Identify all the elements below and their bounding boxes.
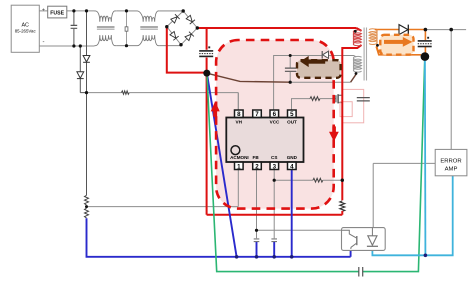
svg-text:85-265Vac: 85-265Vac	[15, 29, 37, 34]
svg-text:8: 8	[237, 111, 241, 118]
svg-text:ERROR: ERROR	[440, 159, 461, 165]
svg-text:FUSE: FUSE	[50, 10, 64, 16]
svg-text:AMP: AMP	[445, 167, 458, 173]
svg-text:1: 1	[237, 163, 241, 170]
svg-text:OUT: OUT	[287, 119, 297, 124]
svg-text:VCC: VCC	[270, 119, 280, 124]
svg-text:GND: GND	[287, 155, 298, 160]
svg-text:7: 7	[255, 111, 259, 118]
svg-text:5: 5	[290, 111, 294, 118]
svg-text:VH: VH	[236, 119, 243, 124]
svg-text:CS: CS	[271, 155, 277, 160]
svg-text:6: 6	[273, 111, 277, 118]
svg-text:+: +	[42, 7, 45, 13]
svg-text:3: 3	[273, 163, 277, 170]
svg-text:ACMONI: ACMONI	[230, 155, 249, 160]
svg-text:4: 4	[290, 163, 294, 170]
svg-text:-: -	[43, 39, 45, 45]
svg-text:FB: FB	[253, 155, 260, 160]
svg-text:2: 2	[255, 163, 259, 170]
